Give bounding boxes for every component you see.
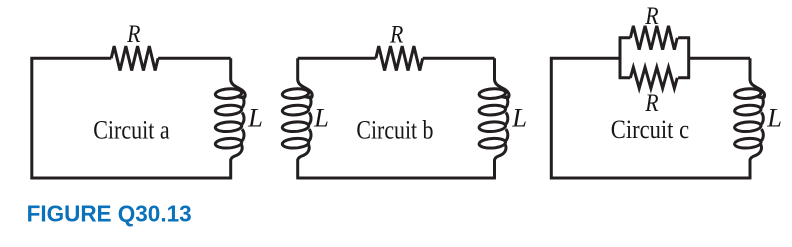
inductor L right (circuit b)	[479, 58, 509, 179]
wire: upper branch stubs	[619, 36, 691, 39]
resistor R lower (circuit c)	[630, 67, 677, 88]
svg-text:FIGURE Q30.13: FIGURE Q30.13	[27, 201, 192, 227]
svg-text:Circuit c: Circuit c	[611, 114, 689, 144]
svg-text:L: L	[766, 102, 782, 132]
svg-text:Circuit a: Circuit a	[93, 115, 170, 145]
inductor L left (circuit b)	[282, 58, 312, 179]
inductor L (circuit c)	[735, 58, 765, 179]
resistor R (circuit b)	[376, 46, 423, 70]
circuit a: left/bottom/top loop wire	[32, 58, 231, 178]
svg-text:R: R	[126, 21, 140, 48]
resistor R (circuit a)	[111, 46, 158, 70]
svg-text:R: R	[644, 3, 658, 30]
circuit c: left/bottom loop wire	[551, 58, 750, 178]
node: left junction bar of parallel resistors	[619, 38, 622, 78]
wire: lower branch stubs	[619, 76, 691, 79]
svg-text:L: L	[511, 102, 527, 132]
svg-text:R: R	[644, 90, 658, 117]
circuit b: bottom wire	[298, 177, 495, 180]
inductor L (circuit a)	[215, 58, 245, 179]
circuit b: top wire right segment	[423, 57, 495, 60]
svg-text:R: R	[389, 22, 403, 49]
circuit b: top wire left segment	[298, 57, 376, 60]
svg-text:L: L	[313, 102, 329, 132]
svg-text:L: L	[247, 102, 263, 132]
resistor R upper (circuit c)	[630, 26, 677, 50]
circuit a: top wire right segment to inductor	[158, 57, 231, 60]
circuit c: right top wire from parallel block to inductor	[689, 57, 750, 60]
svg-text:Circuit b: Circuit b	[356, 115, 433, 145]
node: right junction bar of parallel resistors	[687, 38, 690, 78]
